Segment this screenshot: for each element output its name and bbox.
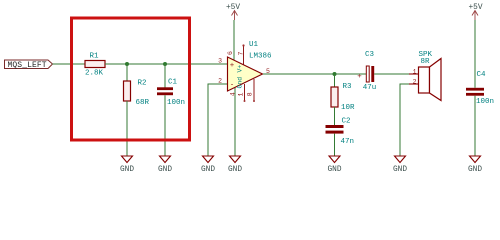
svg-text:+: + [230, 62, 235, 70]
svg-text:GND: GND [201, 166, 215, 174]
svg-text:2: 2 [413, 79, 417, 86]
svg-text:GND: GND [327, 166, 341, 174]
svg-text:68R: 68R [136, 99, 150, 107]
resistor R3 10R [331, 83, 355, 112]
svg-text:1: 1 [238, 93, 245, 97]
wire op-amp pin 5 output [263, 73, 335, 75]
svg-text:LM386: LM386 [249, 53, 272, 61]
svg-text:4: 4 [230, 92, 237, 96]
svg-text:3: 3 [218, 58, 222, 65]
wire C4 to ground [474, 96, 476, 156]
svg-text:MQS_LEFT: MQS_LEFT [8, 61, 47, 70]
capacitor C1 100n [157, 79, 185, 108]
svg-text:7: 7 [237, 52, 244, 56]
svg-text:10R: 10R [341, 104, 355, 112]
highlight box [72, 18, 190, 140]
op-amp U1 LM386 [218, 41, 272, 102]
wire R3 to C2 [334, 107, 336, 125]
wire R1 to op-amp pin 3 [105, 63, 228, 65]
resistor R2 68R [124, 80, 150, 108]
svg-text:100n: 100n [167, 99, 185, 107]
svg-text:100n: 100n [476, 98, 494, 106]
wire +5V to op-amp pin 6 [233, 20, 235, 60]
svg-text:+5V: +5V [226, 4, 240, 12]
wire op-amp pin 4 to ground [234, 87, 236, 156]
wire flag to R1 [53, 63, 86, 65]
ground under C2 [327, 156, 341, 174]
wire C3 to speaker pin 1 [374, 73, 409, 75]
power +5V right [468, 4, 482, 20]
junction at R3 tap [333, 72, 337, 76]
ground under R2 [120, 156, 134, 174]
pin 7 stub [243, 46, 245, 65]
svg-text:C3: C3 [365, 51, 375, 59]
wire junction to R2 [126, 64, 128, 81]
svg-text:8: 8 [246, 92, 253, 96]
svg-text:R2: R2 [138, 80, 147, 88]
svg-text:C1: C1 [168, 79, 178, 87]
svg-text:GND: GND [228, 166, 242, 174]
svg-text:R1: R1 [89, 52, 99, 60]
speaker SPK 8R [409, 51, 441, 101]
svg-text:47u: 47u [363, 84, 377, 92]
wire C1 to ground [164, 95, 166, 156]
net flag MQS_LEFT [5, 60, 53, 70]
ground under pin 4 [228, 156, 242, 174]
svg-text:GND: GND [393, 166, 407, 174]
wire C2 to ground [334, 134, 336, 156]
junction at C1 tap [163, 62, 167, 66]
resistor R1 2.8K [85, 52, 105, 77]
wire junction to C3 [335, 73, 367, 75]
svg-text:2: 2 [218, 78, 222, 85]
ground under C1 [158, 156, 172, 174]
wire R2 to ground [126, 101, 128, 156]
wire op-amp pin 2 to ground column [208, 84, 228, 156]
svg-text:2.8K: 2.8K [85, 70, 104, 78]
svg-text:V+: V+ [236, 65, 243, 73]
svg-text:6: 6 [227, 51, 234, 55]
svg-text:C4: C4 [477, 71, 487, 79]
svg-text:R3: R3 [343, 83, 353, 91]
ground under C4 [468, 156, 482, 174]
svg-text:GND: GND [120, 166, 134, 174]
capacitor C3 47u polarized [357, 51, 376, 92]
svg-text:U1: U1 [249, 41, 259, 49]
wire +5V to C4 [474, 20, 476, 88]
ground under pin 2 [201, 156, 215, 174]
capacitor C4 100n [466, 71, 494, 106]
svg-text:-: - [230, 81, 235, 89]
svg-text:+: + [357, 73, 362, 81]
svg-text:Gnd: Gnd [236, 77, 243, 89]
ground under speaker [393, 156, 407, 174]
svg-text:GND: GND [468, 166, 482, 174]
capacitor C2 47n [326, 118, 355, 147]
svg-text:47n: 47n [341, 138, 355, 146]
svg-text:1: 1 [413, 69, 417, 76]
pin 8 stub [253, 79, 255, 101]
wire speaker pin 2 to ground column [400, 84, 409, 156]
svg-text:GND: GND [158, 166, 172, 174]
wire junction to C1 [164, 64, 166, 88]
wire junction to R3 [334, 74, 336, 87]
svg-text:8R: 8R [421, 58, 431, 66]
pin 1 stub [244, 84, 246, 101]
svg-text:C2: C2 [342, 118, 351, 126]
junction at R2 tap [125, 62, 129, 66]
power +5V above op-amp pin 6 [226, 4, 240, 20]
svg-text:+5V: +5V [468, 4, 482, 12]
